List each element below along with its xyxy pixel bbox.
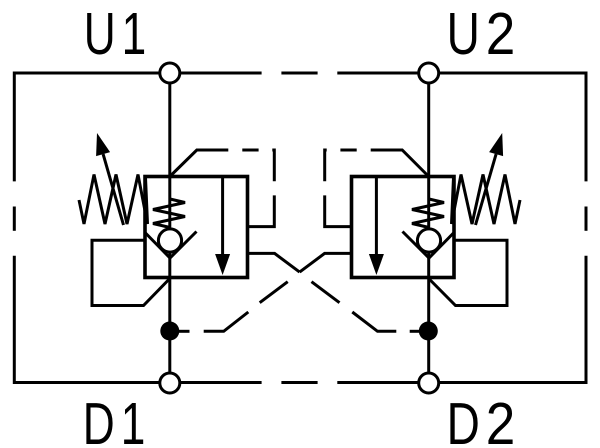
port U2	[419, 63, 439, 83]
wire: cross pilot dash B1 (from vertex toward N1)	[260, 282, 288, 303]
arrow: CB1 relief flow path (down arrow)	[215, 178, 230, 275]
wire: envelope bottom segment mid dash to D2	[337, 381, 418, 384]
wire: cross pilot dash A1 (from vertex toward N2)	[312, 282, 340, 303]
arrow: adjustability arrow CB1	[96, 133, 123, 225]
wire: CB1 pilot dash corner	[272, 150, 274, 181]
port U1	[160, 63, 180, 83]
wire: main line U2 to D2	[427, 83, 430, 373]
port D2	[419, 373, 439, 393]
wire: cross pilot dash A3 at node N2	[410, 330, 419, 333]
wire: envelope top-right segment	[439, 72, 586, 75]
label D1	[83, 392, 152, 448]
wire: envelope bottom-left segment	[14, 381, 159, 384]
adjustable spring CB1	[79, 175, 148, 225]
wire: CB1 pilot dash down to stub	[248, 195, 275, 226]
wire: cross pilot dash A2 corner	[352, 312, 396, 331]
wire: envelope bottom-right segment	[439, 381, 586, 384]
wire: envelope top segment U1 to mid dash	[181, 72, 262, 75]
wire: CB2 pilot dash top	[340, 149, 356, 152]
wire: CB1 pilot tap diagonal and top run	[170, 150, 229, 177]
adjustable spring CB2	[452, 175, 521, 225]
node N1 (junction dot)	[160, 322, 179, 341]
wire: cross pilot dash B3 at node N1	[179, 330, 190, 333]
svg-text:D1: D1	[83, 392, 152, 448]
label U2	[447, 2, 480, 68]
wire: envelope right side lower segment	[585, 256, 588, 384]
svg-text:2: 2	[486, 0, 516, 66]
wire: envelope bottom segment D1 to mid dash	[181, 381, 262, 384]
wire: CB2 pilot dash corner	[325, 150, 327, 181]
wire: CB2 pilot stub to crossing vertex (solid)	[300, 253, 352, 272]
wire: CB2 pilot tap diagonal and top run	[371, 150, 429, 177]
wire: envelope left side mid dash	[13, 207, 16, 231]
valve body CB2 (right counterbalance valve envelope)	[352, 177, 455, 278]
wire: envelope left side upper segment	[13, 72, 16, 182]
wire: envelope right side upper segment	[585, 72, 588, 182]
wire: CB2 pilot dash down to stub	[325, 195, 352, 226]
wire: CB1 pilot dash top	[242, 149, 258, 152]
check valve ball CB1	[158, 229, 181, 252]
wire: main line U1 to D1	[168, 83, 171, 373]
wire: envelope right side mid dash	[585, 207, 588, 231]
wire: cross pilot dash B2 corner	[204, 312, 249, 331]
check valve spring CB2	[412, 199, 444, 228]
svg-text:U: U	[447, 2, 480, 68]
arrow: CB2 relief flow path (down arrow)	[369, 178, 384, 275]
node N2 (junction dot)	[419, 322, 438, 341]
check valve spring CB1	[153, 199, 185, 228]
arrow: adjustability arrow CB2	[476, 133, 504, 225]
svg-text:2: 2	[486, 390, 516, 448]
label D2	[447, 392, 480, 448]
wire: envelope top-left segment	[14, 72, 159, 75]
svg-text:U1: U1	[84, 2, 153, 68]
wire: CB1 pilot stub to crossing vertex (solid)	[248, 253, 300, 272]
wire: CB2 drain loop to spring chamber	[429, 240, 507, 305]
check valve seat CB1	[146, 232, 197, 259]
svg-text:D: D	[447, 392, 480, 448]
wire: envelope bottom mid dash	[281, 381, 317, 384]
label U1	[84, 2, 153, 68]
wire: envelope top segment mid dash to U2	[337, 72, 418, 75]
check valve ball CB2	[417, 229, 440, 252]
wire: CB1 drain loop to spring chamber	[92, 240, 170, 305]
wire: envelope top mid dash	[281, 72, 317, 75]
check valve seat CB2	[403, 232, 454, 259]
wire: envelope left side lower segment	[13, 256, 16, 384]
port D1	[160, 373, 180, 393]
valve body CB1 (left counterbalance valve envelope)	[145, 177, 248, 278]
